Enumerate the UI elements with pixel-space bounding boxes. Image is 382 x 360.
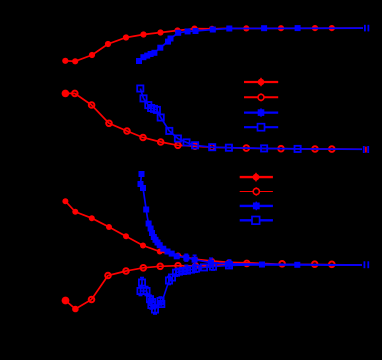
- second plateau end x-error caps: [364, 146, 368, 153]
- upper legend entry 3: blue line + filled square: [244, 108, 278, 116]
- curve B first point blob: [62, 90, 70, 98]
- upper legend entry 4: blue line + open square: [244, 123, 278, 131]
- lower legend entry 4: blue line + open square: [240, 216, 273, 225]
- curve B markers: [72, 91, 335, 152]
- curve G error bars: [184, 254, 231, 268]
- curve F line: red open-circle series rising from bottom-left: [66, 264, 363, 309]
- curve C line: blue filled-square series rising to top plateau: [139, 28, 363, 61]
- curve H error bars: [139, 263, 216, 314]
- curve E line: red filled-circle series falling (lower panel): [65, 201, 362, 265]
- curve D line: blue open-square series falling to second plateau: [140, 89, 362, 150]
- curve H markers: [137, 262, 232, 312]
- curve C markers: [136, 25, 301, 64]
- curve A line: red filled-circle series rising to top plateau: [65, 28, 363, 61]
- curve H line: blue open-square series with dip (lower panel): [141, 265, 363, 310]
- upper legend entry 1: red line + filled circle: [244, 78, 278, 86]
- curve G line: blue filled-square series steep fall (lower panel): [141, 174, 363, 265]
- curve B line: red open-circle series falling to second plateau: [65, 93, 362, 149]
- curve G markers: [138, 171, 301, 268]
- curve A markers: [62, 25, 335, 64]
- curve F first two blob points: [62, 297, 70, 305]
- lower legend entry 3: blue line + filled square: [240, 202, 273, 211]
- curve E markers: [62, 198, 232, 265]
- top plateau end x-error caps: [365, 25, 369, 32]
- second plateau end red x-error cap (peeking): [365, 147, 367, 153]
- upper legend entry 2: red line + open circle: [244, 93, 278, 101]
- curve D markers: [137, 85, 301, 152]
- lower plateau end x-error caps: [364, 261, 368, 268]
- lower legend entry 1: red thick line + filled circle: [240, 173, 273, 182]
- lower legend entry 2: red thin line + open circle: [240, 187, 273, 195]
- curve F markers: [89, 261, 335, 303]
